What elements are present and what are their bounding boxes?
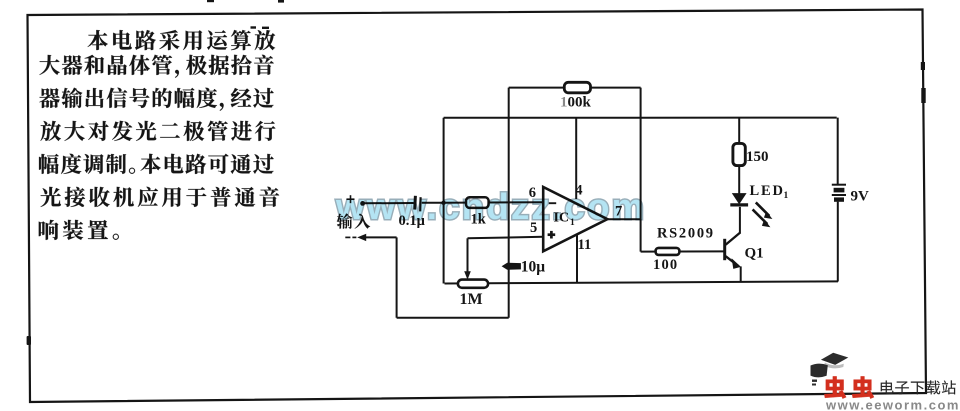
capacitor C 0.1u xyxy=(415,196,421,212)
wire resistor 1k to op-amp pin 6 xyxy=(489,201,544,203)
wire emitter down xyxy=(740,266,742,281)
pin 6 label xyxy=(529,185,536,201)
svg-text:100: 100 xyxy=(653,257,678,273)
wire minus branch down xyxy=(396,237,398,317)
wire feedback top xyxy=(509,87,641,89)
resistor 100 xyxy=(656,248,680,255)
label Q1 xyxy=(745,246,764,262)
resistor 150 xyxy=(733,143,745,165)
svg-text:1M: 1M xyxy=(460,291,483,308)
wire input to capacitor xyxy=(363,202,414,204)
capacitor C 10u xyxy=(502,263,521,270)
input plus terminal xyxy=(347,195,366,206)
svg-text:150: 150 xyxy=(746,149,769,165)
wire op-amp output pin 7 xyxy=(607,218,641,220)
label 10u xyxy=(521,259,546,276)
op-amp IC1 triangle xyxy=(543,187,607,251)
svg-text:LED: LED xyxy=(750,183,785,199)
wire pin 5 input xyxy=(468,237,544,239)
pin 5 label xyxy=(530,220,537,236)
wire battery top xyxy=(837,118,839,185)
wire capacitor to node A xyxy=(422,202,444,204)
label 100k xyxy=(560,95,592,111)
pin 4 label xyxy=(575,183,582,199)
wire 150 branch top xyxy=(738,118,740,144)
svg-text:Q1: Q1 xyxy=(745,246,764,262)
resistor 1k xyxy=(466,197,489,208)
label 1M xyxy=(460,291,483,308)
potentiometer wiper xyxy=(464,238,471,279)
resistor 100k xyxy=(564,82,590,93)
logo url text xyxy=(825,398,960,411)
wire pin 11 xyxy=(576,234,578,283)
wire left vertical branch xyxy=(443,118,445,284)
svg-text:1: 1 xyxy=(560,95,568,111)
logo site name text xyxy=(881,380,956,394)
wire pin 4 supply xyxy=(575,118,577,199)
svg-text:www.eeworm.com: www.eeworm.com xyxy=(825,398,960,411)
wire 150 to LED xyxy=(738,166,740,194)
potentiometer 1M body xyxy=(458,280,488,288)
svg-text:11: 11 xyxy=(578,237,592,253)
svg-text:9V: 9V xyxy=(851,189,870,205)
label 1k xyxy=(471,212,487,228)
pin 11 label xyxy=(578,237,592,253)
input minus terminal xyxy=(345,234,366,241)
label RS2009 xyxy=(657,226,715,242)
LED LED1 xyxy=(730,193,748,205)
watermark www.cndzz.com xyxy=(335,186,646,227)
wire node A to resistor 1k xyxy=(444,202,467,204)
wire battery bottom xyxy=(837,202,839,282)
wire output vertical xyxy=(640,88,642,252)
wire collector up xyxy=(739,207,741,233)
label 150 xyxy=(746,149,769,165)
op-amp plus input mark xyxy=(548,231,556,239)
wire input minus to corner xyxy=(365,236,397,238)
wire top rail xyxy=(444,117,837,119)
svg-text:RS2009: RS2009 xyxy=(657,226,715,242)
logo graduation cap xyxy=(811,353,849,386)
svg-text:10μ: 10μ xyxy=(521,259,546,276)
label 100 xyxy=(653,257,678,273)
svg-text:00k: 00k xyxy=(568,95,592,111)
battery 9V xyxy=(832,185,846,200)
wire mid vertical (feedback/bias) xyxy=(508,88,510,318)
wire output to base resistor xyxy=(641,250,725,252)
circuit description paragraph xyxy=(39,30,279,240)
wire bottom rail xyxy=(445,281,839,283)
op-amp minus input mark xyxy=(549,202,556,204)
pin 7 label xyxy=(615,204,622,220)
transistor Q1 xyxy=(725,232,741,269)
svg-text:1: 1 xyxy=(784,191,789,201)
svg-text:www.cndzz.com: www.cndzz.com xyxy=(335,186,646,227)
label 9V xyxy=(851,189,870,205)
node A junction dot xyxy=(441,201,445,205)
LED light arrows xyxy=(753,202,773,227)
label 0.1u xyxy=(399,213,426,229)
label input (shu ru) xyxy=(337,213,371,228)
wire minus branch bottom xyxy=(397,317,509,319)
label IC1 xyxy=(554,211,576,229)
logo chongchong red text xyxy=(824,376,874,398)
label LED1 xyxy=(750,183,789,201)
